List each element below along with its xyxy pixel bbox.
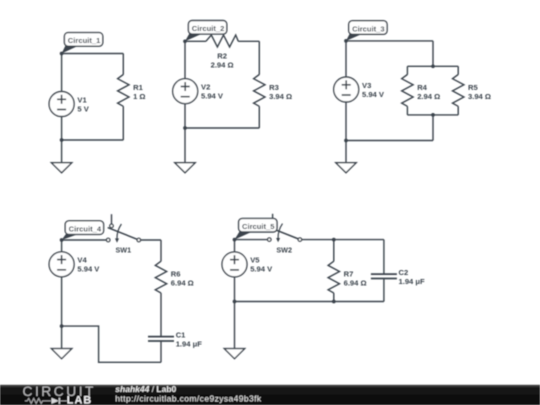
svg-text:Circuit_1: Circuit_1 (68, 36, 101, 45)
voltage source V2 (173, 79, 198, 104)
callout label Circuit_4 (62, 233, 81, 240)
wire: circuit 5 left branch upper (234, 240, 236, 252)
switch SW2 actuation arrow (278, 224, 282, 239)
wire: circuit 2 bottom rail (185, 127, 259, 129)
wire: R7 top lead (333, 240, 335, 262)
wire: circuit 1 bottom rail (62, 139, 124, 141)
svg-text:R7: R7 (344, 270, 354, 279)
svg-text:shahk44 / Lab0: shahk44 / Lab0 (115, 384, 176, 394)
voltage source V5 (222, 252, 247, 277)
logo diode (52, 398, 59, 404)
junction: R7 bottom (332, 300, 336, 304)
voltage source V1 (49, 92, 74, 117)
wire: circuit 4 ground stub (61, 326, 63, 349)
svg-text:SW1: SW1 (116, 246, 132, 255)
wire: circuit 5 ground stub (234, 302, 236, 349)
junction: circuit 5 bottom-left (233, 300, 237, 304)
callout label Circuit_2 (185, 33, 203, 41)
svg-text:6.94 Ω: 6.94 Ω (171, 279, 194, 288)
wire: C2 top lead (383, 240, 385, 275)
wire: circuit 3 left branch lower (345, 102, 347, 141)
resistor R6 (155, 261, 166, 293)
svg-text:R5: R5 (468, 83, 478, 92)
wire: circuit 4 left branch lower (61, 277, 63, 326)
capacitor C1 (148, 336, 174, 338)
wire: circuit 3 parallel bottom rail (407, 114, 458, 116)
wire: circuit 2 right branch upper (258, 41, 260, 74)
resistor R1 (118, 75, 129, 107)
svg-text:V2: V2 (201, 83, 210, 92)
wire: R4 bottom lead (406, 106, 408, 115)
wire: circuit 1 top rail (62, 53, 124, 55)
switch SW1 actuation arrow (117, 224, 121, 239)
node: circuit 4 label anchor (60, 238, 64, 242)
svg-text:V5: V5 (250, 256, 260, 265)
svg-text:Circuit_5: Circuit_5 (242, 222, 275, 231)
logo resistor zigzag (25, 398, 51, 403)
voltage source V3 (334, 77, 359, 102)
wire: circuit 5 node to switch (235, 239, 268, 241)
wire: R5 top lead (457, 66, 459, 74)
wire: circuit 1 left branch upper (61, 54, 63, 92)
svg-text:V1: V1 (77, 95, 87, 104)
switch SW1 top terminal (110, 224, 114, 228)
switch SW1 lever (108, 228, 138, 240)
svg-text:1.94 μF: 1.94 μF (176, 340, 203, 349)
svg-text:R2: R2 (217, 51, 227, 60)
svg-text:R1: R1 (133, 83, 143, 92)
wire: circuit 2 left branch upper (184, 41, 186, 79)
wire: circuit 1 ground stub (61, 140, 63, 163)
wire: circuit 3 bottom stem (432, 115, 434, 141)
wire: circuit 5 switch to loads (302, 239, 384, 241)
junction: circuit 1 bottom-left (60, 138, 64, 142)
wire: circuit 4 node to switch (62, 239, 107, 241)
wire: circuit 4 switch to R6 branch (141, 239, 162, 241)
wire: circuit 2 top rail left lead (185, 40, 206, 42)
wire: circuit 5 left branch lower (234, 277, 236, 302)
wire: circuit 1 left branch lower (61, 116, 63, 140)
svg-text:5 V: 5 V (77, 104, 89, 113)
resistor R2 (206, 35, 238, 47)
wire: circuit 1 right branch upper (122, 54, 124, 75)
resistor R5 (453, 75, 464, 107)
footer bar (0, 385, 540, 405)
wire: circuit 1 right branch lower (122, 106, 124, 140)
wire: circuit 2 left branch lower (184, 104, 186, 128)
wire: R4 top lead (406, 66, 408, 74)
wire: circuit 3 top rail (346, 40, 433, 42)
switch SW1 right terminal (137, 238, 141, 242)
svg-text:1.94 μF: 1.94 μF (399, 277, 426, 286)
callout label Circuit_5 (235, 231, 254, 240)
wire: circuit 2 right branch lower (258, 106, 260, 128)
svg-text:V4: V4 (77, 256, 87, 265)
wire: circuit 4 left branch upper (61, 240, 63, 252)
switch SW2 top terminal (271, 224, 275, 228)
svg-text:R4: R4 (417, 83, 427, 92)
wire: circuit 2 top rail right lead (238, 40, 259, 42)
junction: circuit 3 parallel top (431, 64, 435, 68)
ground: circuit 1 (51, 163, 71, 173)
svg-text:C2: C2 (399, 268, 409, 277)
svg-text:2.94 Ω: 2.94 Ω (417, 92, 440, 101)
svg-text:5.94 V: 5.94 V (250, 265, 273, 274)
ground: circuit 2 (175, 163, 195, 173)
resistor R7 (328, 261, 339, 293)
wire: circuit 3 parallel top rail (407, 65, 458, 67)
junction: circuit 2 bottom-left (183, 126, 187, 130)
svg-text:3.94 Ω: 3.94 Ω (269, 92, 292, 101)
svg-text:LAB: LAB (67, 395, 93, 405)
wire: circuit 5 bottom rail (235, 301, 384, 303)
svg-text:3.94 Ω: 3.94 Ω (468, 92, 491, 101)
junction: circuit 3 parallel bottom (431, 113, 435, 117)
wire: circuit 2 ground stub (184, 128, 186, 163)
node: circuit 3 label anchor (344, 39, 348, 43)
wire: C1 bottom lead (160, 341, 162, 362)
svg-text:Circuit_3: Circuit_3 (352, 24, 385, 33)
svg-text:C1: C1 (176, 331, 186, 340)
resistor R4 (402, 75, 413, 107)
switch SW2 left terminal (268, 238, 272, 242)
resistor R3 (254, 75, 265, 107)
junction: circuit 4 bottom-left (60, 324, 64, 328)
switch SW1 left terminal (106, 238, 110, 242)
callout label Circuit_1 (62, 45, 80, 53)
svg-text:R3: R3 (269, 83, 279, 92)
wire: circuit 3 left branch upper (345, 41, 347, 77)
junction: circuit 3 bottom-left (344, 139, 348, 143)
node: circuit 2 label anchor (183, 39, 187, 43)
wire: circuit 4 right branch upper (160, 240, 162, 261)
ground: circuit 3 (336, 163, 356, 173)
wire: R7 bottom lead (333, 293, 335, 302)
svg-text:5.94 V: 5.94 V (77, 265, 100, 274)
wire: circuit 4 bottom return path (62, 326, 161, 362)
wire: R6 to C1 (160, 293, 162, 337)
svg-text:Circuit_4: Circuit_4 (69, 224, 102, 233)
callout label Circuit_3 (346, 33, 364, 41)
wire: circuit 3 bottom rail (346, 140, 433, 142)
wire: R5 bottom lead (457, 106, 459, 115)
voltage source V4 (49, 252, 74, 277)
svg-text:1 Ω: 1 Ω (133, 92, 145, 101)
svg-text:SW2: SW2 (276, 246, 292, 255)
node: circuit 1 label anchor (60, 52, 64, 56)
wire: circuit 3 ground stub (345, 141, 347, 163)
switch SW1 top stub (111, 214, 113, 224)
capacitor C2 (371, 273, 397, 275)
svg-text:http://circuitlab.com/ce9zysa4: http://circuitlab.com/ce9zysa49b3fk (115, 393, 262, 403)
svg-text:R6: R6 (171, 270, 181, 279)
wire: circuit 3 top stem (432, 41, 434, 66)
ground: circuit 5 (224, 349, 244, 359)
svg-text:6.94 Ω: 6.94 Ω (344, 279, 367, 288)
node: circuit 5 label anchor (233, 238, 237, 242)
svg-text:Circuit_2: Circuit_2 (192, 24, 225, 33)
junction: R7 top (332, 238, 336, 242)
switch SW2 lever (269, 227, 299, 239)
switch SW2 top stub (272, 214, 274, 224)
svg-text:2.94 Ω: 2.94 Ω (211, 60, 234, 69)
svg-text:5.94 V: 5.94 V (362, 90, 385, 99)
ground: circuit 4 (51, 349, 71, 359)
svg-text:5.94 V: 5.94 V (201, 92, 224, 101)
svg-text:V3: V3 (362, 81, 371, 90)
switch SW2 right terminal (298, 238, 302, 242)
wire: C2 bottom lead (383, 279, 385, 302)
